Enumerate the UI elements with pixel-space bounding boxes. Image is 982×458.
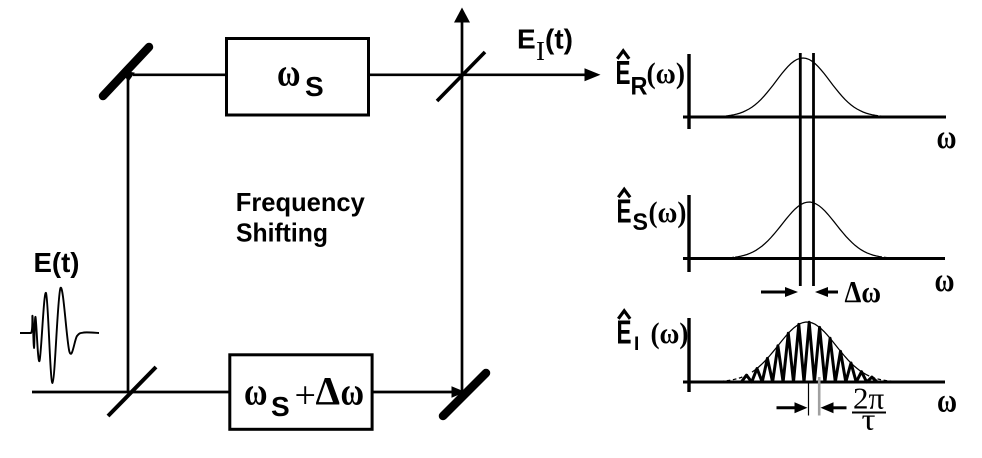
svg-text:ω: ω: [935, 262, 955, 299]
delta-omega left arrow: [823, 291, 838, 294]
beamsplitter BS2: [437, 52, 485, 101]
svg-text:ω: ω: [244, 371, 268, 414]
wire bottom input beam: [32, 391, 452, 394]
box omega_S: [227, 39, 369, 116]
svg-text:ω: ω: [937, 383, 957, 420]
axis horizontal plot3: [683, 381, 945, 384]
pulse waveform E(t): [20, 288, 99, 383]
axis vertical plot1: [687, 54, 690, 129]
svg-text:(ω): (ω): [647, 57, 686, 90]
fringes zigzag: [741, 322, 877, 382]
tall vertical line left: [799, 53, 802, 286]
svg-text:R: R: [631, 72, 648, 100]
svg-text:(t): (t): [545, 23, 573, 54]
arrowhead up: [454, 8, 470, 23]
wire top to box: [133, 73, 226, 76]
arrowhead into mirror M2: [452, 386, 466, 397]
arrowhead left at mirror M1: [122, 71, 135, 82]
svg-text:+: +: [295, 374, 316, 416]
arrowhead output: [585, 68, 601, 81]
gray marker line: [818, 377, 821, 416]
svg-text:Δω: Δω: [845, 274, 882, 309]
box omega_S + delta omega: [230, 355, 372, 430]
axis horizontal plot2: [683, 257, 945, 260]
mirror M2: [443, 373, 486, 416]
beamsplitter BS1: [108, 367, 156, 416]
svg-text:ω: ω: [341, 371, 365, 414]
svg-text:(ω): (ω): [649, 196, 687, 229]
svg-text:E: E: [517, 23, 536, 54]
svg-text:S: S: [305, 71, 324, 102]
svg-text:E(t): E(t): [34, 247, 80, 278]
svg-text:ω: ω: [937, 119, 957, 156]
svg-text:(ω): (ω): [651, 317, 689, 350]
gaussian R dashed: [695, 116, 728, 117]
tau left arrow: [833, 406, 847, 409]
delta-omega right arrow: [761, 291, 790, 294]
wire box1 to output arrow: [368, 73, 589, 76]
svg-text:I: I: [634, 334, 639, 355]
wire right vertical: [461, 20, 464, 393]
svg-text:Δ: Δ: [316, 369, 341, 414]
mirror M1: [103, 47, 149, 96]
axis horizontal plot1: [683, 116, 946, 119]
tall vertical line right: [812, 53, 815, 286]
thin black marker line: [808, 383, 810, 416]
tau right arrow: [777, 406, 797, 409]
axis vertical plot3: [687, 318, 690, 392]
svg-text:Shifting: Shifting: [236, 218, 328, 248]
svg-text:I: I: [536, 36, 545, 66]
svg-text:S: S: [633, 209, 649, 236]
svg-text:τ: τ: [862, 402, 876, 437]
wire left vertical: [127, 74, 130, 392]
svg-text:Frequency: Frequency: [236, 187, 366, 217]
axis vertical plot2: [687, 195, 690, 272]
svg-text:ω: ω: [277, 52, 301, 95]
gaussian S dashed: [695, 257, 734, 258]
svg-text:S: S: [271, 391, 290, 422]
envelope dashed: [702, 373, 750, 382]
